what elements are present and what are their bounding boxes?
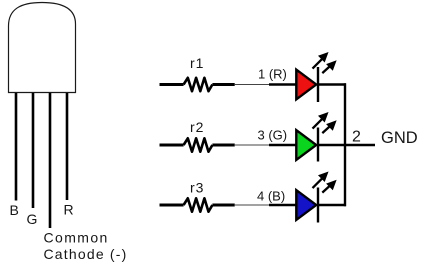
- lead pin common cathode: [49, 93, 52, 228]
- svg-text:Cathode (-): Cathode (-): [44, 246, 128, 262]
- LED D3 light arrows: [313, 172, 336, 192]
- svg-text:3 (G): 3 (G): [258, 127, 288, 142]
- LED D2 green: [296, 130, 316, 160]
- resistor r1: [160, 78, 235, 91]
- svg-text:1 (R): 1 (R): [258, 67, 287, 82]
- svg-text:G: G: [27, 211, 38, 227]
- svg-text:r2: r2: [190, 119, 204, 135]
- svg-text:r3: r3: [190, 180, 204, 196]
- svg-text:B: B: [10, 202, 19, 218]
- svg-text:R: R: [64, 202, 74, 218]
- resistor r2: [160, 138, 235, 151]
- LED D1 light arrows: [313, 53, 336, 73]
- lead pin R: [66, 93, 69, 200]
- svg-text:GND: GND: [381, 129, 418, 147]
- LED package body: [9, 3, 76, 93]
- svg-text:2: 2: [352, 129, 361, 146]
- wire LED2 to bus and GND stub: [319, 144, 375, 147]
- wire LED1 to bus: [319, 83, 346, 85]
- LED D1 red: [296, 70, 316, 100]
- wire LED3 to bus: [319, 204, 346, 206]
- svg-text:Common: Common: [44, 230, 109, 246]
- cathode bus wire: [344, 83, 346, 206]
- resistor r3: [160, 198, 235, 211]
- svg-text:4 (B): 4 (B): [257, 189, 285, 204]
- wire r3 to LED3: [235, 204, 269, 206]
- lead pin B: [15, 93, 18, 201]
- wire r1 to LED1: [235, 84, 269, 86]
- LED D3 blue: [296, 190, 316, 220]
- LED D2 light arrows: [313, 113, 336, 133]
- svg-text:r1: r1: [190, 55, 204, 71]
- wire r2 to LED2: [235, 144, 269, 146]
- lead pin G: [32, 93, 35, 208]
